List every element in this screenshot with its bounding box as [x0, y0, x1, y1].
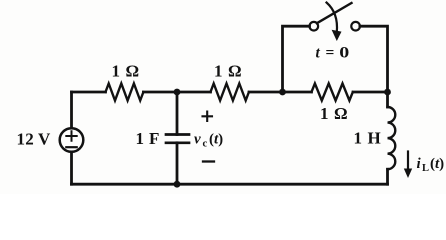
wire R3 to node D [353, 91, 388, 94]
wire node C to R3 [283, 91, 312, 94]
resistor R1 [106, 84, 144, 101]
node F junction dot [174, 181, 181, 188]
wire inductor bottom lead [386, 169, 389, 184]
wire switch loop right leg [360, 26, 388, 92]
source polarity minus [66, 146, 76, 148]
capacitor C1 plates [166, 135, 189, 143]
svg-text:(t): (t) [209, 132, 223, 148]
wire top-left horizontal [72, 91, 106, 94]
svg-text:1 F: 1 F [136, 129, 160, 148]
wire bottom [72, 183, 388, 186]
capacitor polarity minus [203, 160, 214, 162]
switch S1 left contact [310, 22, 319, 31]
inductor L1 coil [388, 107, 396, 169]
switch S1 blade [317, 3, 352, 23]
svg-text:1 Ω: 1 Ω [320, 104, 348, 123]
current arrow iL head [404, 169, 412, 179]
svg-text:0: 0 [339, 43, 349, 60]
switch S1 closing arc arrow [327, 3, 338, 33]
node C junction dot [279, 89, 286, 96]
voltage source V1 circle [60, 128, 84, 152]
resistor R3 [312, 84, 353, 101]
svg-text:1 H: 1 H [354, 128, 382, 147]
switch arc arrowhead [332, 30, 342, 41]
svg-text:=: = [326, 44, 335, 61]
svg-text:1 Ω: 1 Ω [214, 62, 242, 81]
svg-text:i: i [417, 156, 422, 172]
svg-text:c: c [203, 139, 208, 150]
switch S1 right contact [351, 22, 360, 31]
svg-text:(t): (t) [430, 156, 444, 172]
wire R2 to node C [249, 91, 283, 94]
svg-text:12 V: 12 V [17, 130, 52, 149]
wire capacitor bottom lead [176, 143, 179, 184]
wire switch loop left leg [283, 26, 310, 92]
wire left branch lower [70, 152, 73, 184]
capacitor polarity plus [203, 112, 213, 122]
node D junction dot [384, 89, 391, 96]
wire capacitor top lead [176, 92, 179, 135]
wire R1 to node B [143, 91, 177, 94]
svg-text:L: L [422, 163, 429, 174]
svg-text:v: v [194, 132, 201, 148]
node B junction dot [174, 89, 181, 96]
svg-text:1 Ω: 1 Ω [112, 61, 140, 80]
wire node B to R2 [177, 91, 211, 94]
source polarity plus [66, 131, 76, 141]
current arrow iL [407, 152, 409, 172]
svg-text:t: t [316, 44, 321, 61]
resistor R2 [211, 84, 249, 101]
wire inductor top lead [386, 92, 389, 107]
wire left branch upper [70, 92, 73, 128]
